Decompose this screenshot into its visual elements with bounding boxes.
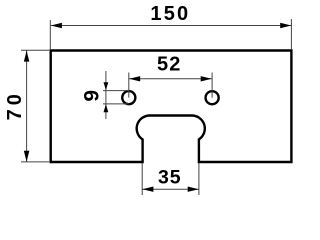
dimension 52: right arrowhead	[201, 76, 212, 81]
dimension 150: extension line right	[290, 19, 292, 49]
dimension 150: dimension line	[51, 25, 292, 27]
dimension 9: tangent extension line top	[103, 90, 129, 92]
dimension 9: lower shaft	[105, 104, 107, 119]
dimension 70: extension line bottom	[21, 161, 49, 163]
svg-text:52: 52	[157, 53, 182, 75]
dimension 150: extension line left	[49, 20, 51, 49]
dimension 9: tangent extension line bottom	[103, 103, 129, 105]
hole H1 (left, Ø9)	[122, 91, 135, 104]
dimension 9: upper shaft	[105, 71, 107, 91]
dimension 70: bottom arrowhead	[24, 151, 30, 162]
dimension 52: extension line left	[128, 73, 130, 98]
dimension 70: extension line top	[21, 49, 49, 51]
dimension 35: extension line right	[198, 163, 200, 195]
svg-text:35: 35	[158, 167, 181, 189]
hole H2 (right, Ø9)	[206, 91, 219, 104]
svg-text:9: 9	[80, 90, 103, 102]
dimension 70: top arrowhead	[24, 51, 30, 62]
dimension 150: right arrowhead	[280, 23, 291, 29]
svg-text:70: 70	[4, 90, 26, 120]
dimension 35: left arrowhead	[142, 187, 153, 192]
dimension 9: lower arrowhead (points up)	[104, 104, 109, 112]
dimension 52: dimension line	[129, 78, 212, 80]
dimension 70: dimension line	[26, 50, 28, 161]
dimension 35: dimension line	[142, 188, 199, 190]
dimension 52: extension line right	[211, 73, 213, 98]
svg-text:150: 150	[150, 3, 190, 25]
dimension 150: left arrowhead	[51, 23, 62, 29]
dimension 52: left arrowhead	[129, 76, 140, 81]
plate outline with bottom slot	[51, 51, 292, 163]
dimension 9: dimension line between tangents	[105, 91, 107, 104]
dimension 35: extension line left	[141, 163, 143, 195]
dimension 35: right arrowhead	[188, 187, 199, 192]
dimension 9: upper arrowhead (points down)	[104, 82, 109, 90]
